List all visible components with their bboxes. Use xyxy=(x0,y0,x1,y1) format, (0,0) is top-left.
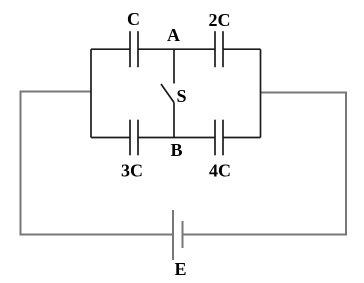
svg-text:B: B xyxy=(170,140,182,160)
svg-text:4C: 4C xyxy=(209,160,231,180)
svg-text:3C: 3C xyxy=(121,160,143,180)
svg-text:C: C xyxy=(127,9,140,29)
svg-text:2C: 2C xyxy=(209,10,231,30)
svg-text:A: A xyxy=(167,25,180,45)
svg-text:S: S xyxy=(177,86,187,106)
svg-text:E: E xyxy=(174,259,186,279)
